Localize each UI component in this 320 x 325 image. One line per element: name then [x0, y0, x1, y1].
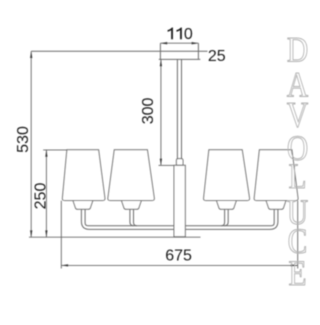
canopy right edge [197, 43, 199, 59]
svg-text:530: 530 [15, 126, 32, 153]
lamp shade 1 [62, 150, 105, 201]
arrow 300 bottom [160, 159, 162, 166]
svg-text:675: 675 [165, 248, 192, 265]
arrow 675 right [291, 264, 298, 266]
lamp shade 3 [204, 150, 250, 201]
arm tube shade3 [221, 209, 228, 225]
extension line 675 left [60, 201, 62, 269]
dim text 110 digit 1a [168, 28, 173, 40]
arrow 110 left [160, 42, 167, 44]
arrow 530 top [30, 51, 32, 58]
arm bar outer tube shade1 to shade4 [81, 209, 278, 229]
dim line 250 [45, 150, 47, 237]
wire canopy top extension line [31, 50, 207, 52]
extension line 675 right [297, 201, 299, 269]
dim line 530 [30, 51, 32, 237]
arrow 300 top [160, 59, 162, 66]
svg-text:300: 300 [140, 97, 157, 124]
dim line 675 [61, 264, 297, 266]
socket shade1 [73, 201, 93, 210]
svg-text:D: D [287, 31, 308, 70]
arm tube shade2 [130, 209, 137, 225]
rod left line [176, 59, 178, 158]
arrow 530 bottom [30, 230, 32, 237]
arrow 250 top [45, 150, 47, 157]
svg-text:0: 0 [184, 26, 193, 43]
socket shade3 [217, 201, 237, 210]
canopy left edge [159, 43, 161, 59]
joint box on rod [176, 159, 183, 166]
dim line 300 [160, 59, 162, 165]
arrow 675 left [61, 264, 68, 266]
svg-text:E: E [288, 254, 306, 293]
rod right line [181, 59, 183, 158]
svg-text:250: 250 [32, 183, 49, 210]
socket shade2 [122, 201, 142, 210]
socket shade4 [266, 201, 286, 210]
arrow 110 right [192, 42, 199, 44]
lamp shade 4 [254, 150, 298, 201]
arrow 250 bottom [45, 230, 47, 237]
lamp shade 2 [108, 150, 154, 201]
svg-text:25: 25 [208, 48, 226, 65]
baseline extension bottom of column [29, 236, 201, 238]
extension line 250 top [43, 149, 67, 151]
arm bar inner top line [85, 209, 274, 225]
dim line 110 [160, 42, 198, 44]
dim text 110 digit 1b [176, 28, 181, 40]
central column [174, 165, 185, 236]
svg-text:L: L [288, 157, 306, 196]
tick at column top for 300 [159, 164, 174, 166]
wire canopy bottom line [159, 58, 201, 60]
